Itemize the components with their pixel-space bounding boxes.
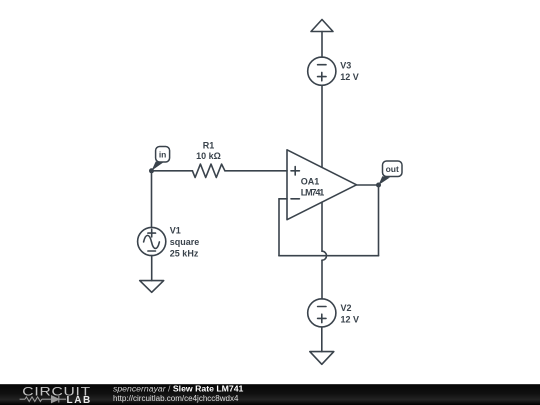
svg-text:V2: V2	[341, 303, 352, 313]
svg-text:LAB: LAB	[67, 395, 92, 405]
svg-text:V1: V1	[170, 225, 181, 235]
svg-text:LM741: LM741	[301, 188, 325, 198]
op-amp - input symbol	[291, 198, 299, 200]
svg-text:spencernayar / Slew Rate LM741: spencernayar / Slew Rate LM741	[113, 383, 244, 393]
svg-text:25 kHz: 25 kHz	[170, 248, 199, 258]
footer black bar	[0, 383, 540, 405]
CircuitLab logo CIRCUIT text	[22, 384, 91, 398]
power flag arrow (V3 supply)	[311, 20, 333, 32]
svg-text:12 V: 12 V	[340, 72, 359, 82]
op-amp + input symbol	[291, 167, 299, 175]
wire node in to resistor R1	[152, 170, 193, 172]
node flag in box	[156, 147, 170, 163]
svg-text:OA1: OA1	[301, 176, 320, 186]
resistor R1 zigzag	[192, 164, 225, 177]
voltage source V2	[308, 299, 336, 327]
svg-text:V3: V3	[340, 61, 351, 71]
svg-text:R1: R1	[203, 140, 215, 150]
node out flag pointer	[379, 176, 391, 185]
junction node in	[149, 168, 154, 173]
op-amp - input pin stub	[279, 198, 287, 200]
ground below V2	[310, 352, 334, 365]
wire V3 bottom to op-amp V+ pin	[321, 85, 323, 167]
svg-text:square: square	[170, 237, 200, 247]
node flag out box	[383, 161, 403, 177]
feedback wire right vertical to output	[378, 185, 380, 256]
wire hop over feedback wire	[322, 251, 327, 260]
junction node out	[376, 183, 381, 188]
ground below V1	[140, 281, 164, 293]
wire hop to V2 top	[321, 260, 323, 299]
wire arrow to V3 top	[321, 32, 323, 58]
op-amp U1 OA1 triangle	[287, 150, 357, 220]
wire V1 to ground	[151, 256, 153, 281]
wire op-amp V- pin down to hop	[321, 202, 323, 251]
wire node in down to V1	[151, 171, 153, 228]
wire resistor R1 to op-amp + input	[225, 170, 287, 172]
feedback wire left vertical	[278, 199, 280, 256]
svg-text:http://circuitlab.com/ce4jchcc: http://circuitlab.com/ce4jchcc8wdx4	[113, 394, 239, 403]
svg-text:in: in	[159, 149, 167, 159]
wire V2 to ground	[321, 327, 323, 352]
wire op-amp output to node out	[357, 184, 379, 186]
voltage source V1	[138, 227, 166, 255]
svg-text:12 V: 12 V	[341, 315, 360, 325]
voltage source V3	[308, 57, 336, 85]
node in flag pointer	[152, 162, 164, 171]
CircuitLab logo wire-resistor-diode glyph	[20, 396, 66, 403]
svg-text:10 kΩ: 10 kΩ	[196, 151, 221, 161]
feedback wire bottom horizontal	[279, 255, 379, 257]
svg-text:out: out	[386, 164, 399, 174]
